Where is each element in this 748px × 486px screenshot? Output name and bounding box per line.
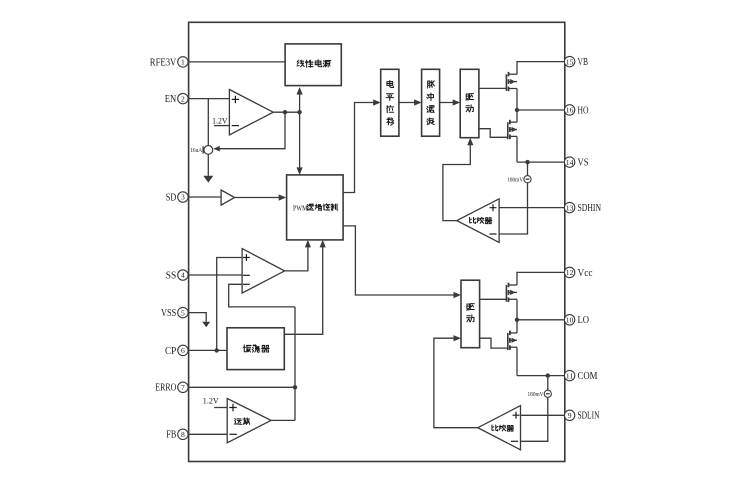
node COM/180mV junction: [546, 373, 550, 377]
PWM comparator U3 (SS): [242, 249, 285, 294]
node VS/180mV junction: [525, 160, 529, 164]
svg-text:2: 2: [181, 94, 185, 103]
wire: 180mV to VS node: [527, 162, 529, 176]
svg-text:VSS: VSS: [161, 308, 176, 319]
svg-text:11: 11: [566, 372, 574, 380]
wire: U3 output up into PWM logic: [285, 245, 308, 271]
pin 1 RFE3V: [150, 57, 188, 69]
node on VDD vertical: [297, 110, 301, 114]
MOSFET Q4 (low side low, LO-COM): [508, 331, 517, 350]
wire: EN branch down to current source: [207, 99, 209, 146]
svg-text:VB: VB: [578, 57, 589, 68]
wire: PWM logic to low-side driver: [343, 226, 456, 295]
high-side comparator U5 (比较器, SDHIN): [457, 199, 499, 243]
wire: SS pin to U3 minus input: [189, 274, 243, 276]
pin 8 FB: [166, 429, 188, 441]
node HO junction: [515, 108, 519, 112]
wire: EN pin to U1 plus input: [189, 98, 230, 100]
MOSFET Q2 (high side low, HO-VS): [508, 120, 517, 139]
linear power supply block (线性电源): [285, 44, 341, 86]
wire: vertical net joining ramp/osc/ERRO/U4 output: [294, 307, 296, 421]
wire: Q4 drain up to LO node: [516, 320, 518, 333]
pin 7 ERRO: [155, 382, 188, 394]
wire: Q1 drain up to VB rail: [517, 62, 565, 75]
svg-text:FB: FB: [166, 430, 176, 441]
wire: U6 output to low-side driver: [434, 338, 478, 428]
svg-text:6: 6: [181, 346, 185, 355]
wire: U3 plus input down to CP node: [217, 258, 242, 351]
wire: buffer to PWM logic: [235, 197, 282, 199]
1.2V reference stub into U1 minus input: [214, 125, 230, 127]
wire: Q2 drain up to HO node: [516, 110, 518, 122]
wire: oscillator output net: [284, 245, 322, 335]
wire: SD pin to buffer: [189, 196, 222, 198]
wire: Q3 drain up to Vcc rail: [517, 272, 565, 285]
wire: Q4 gate jog from low-side driver: [480, 338, 508, 348]
IC boundary box: [189, 22, 565, 461]
svg-text:LO: LO: [578, 315, 590, 326]
wire: ERRO pin line: [189, 386, 295, 388]
pin 5 VSS: [161, 307, 188, 319]
svg-text:10: 10: [566, 317, 574, 325]
oscillator block (振荡器): [227, 328, 284, 370]
svg-text:1.2V: 1.2V: [203, 396, 219, 405]
wire: Q3 gate from low-side driver: [480, 298, 507, 300]
wire: U6 minus input to 180mV source: [521, 397, 548, 441]
svg-text:16uA: 16uA: [190, 148, 203, 154]
low-side driver block (驱动): [461, 280, 480, 348]
svg-text:9: 9: [568, 411, 572, 420]
ground (VSS): [202, 322, 210, 327]
node U1 output branch: [283, 110, 287, 114]
svg-text:4: 4: [181, 271, 185, 280]
svg-text:VS: VS: [578, 158, 589, 169]
wire: FB pin to U4 minus input: [189, 433, 228, 435]
wire: pulse filter to high-side driver: [440, 102, 456, 104]
svg-text:SD: SD: [166, 192, 177, 203]
svg-text:180mV: 180mV: [507, 178, 524, 184]
MOSFET Q1 (high side, VB): [506, 72, 517, 91]
level shift block (电平位移): [381, 69, 399, 136]
wire: RFE3V pin to linear power block: [189, 61, 286, 63]
pulse filter block (脉冲滤波): [422, 69, 440, 136]
pin 13 SDHIN: [564, 202, 601, 214]
op-amp U1 (EN comparator, 1.2V ref): [212, 90, 273, 135]
wire: SDHIN pin to U5 plus input: [499, 207, 565, 209]
pin 11 COM: [564, 370, 597, 382]
pin 16 HO: [564, 105, 588, 117]
svg-text:8: 8: [181, 430, 185, 439]
MOSFET Q3 (low side, Vcc): [506, 283, 517, 302]
svg-text:CP: CP: [165, 346, 177, 357]
node ERRO junction: [293, 385, 297, 389]
wire: Q3 source down to LO node: [516, 299, 518, 320]
pin 3 SD: [166, 192, 188, 204]
wire: Q1 gate from high-side driver: [479, 87, 507, 89]
wire: U4 output to vertical net: [271, 419, 295, 421]
svg-text:1.2V: 1.2V: [212, 116, 228, 125]
svg-text:SDLIN: SDLIN: [578, 411, 600, 422]
current source 16uA: [190, 146, 213, 155]
svg-text:Vcc: Vcc: [578, 268, 594, 279]
wire: LO line to pin 10: [517, 319, 565, 321]
pin 6 CP: [165, 345, 188, 357]
low-side comparator U6 (比较器, SDLIN): [478, 406, 521, 450]
pin 4 SS: [166, 270, 188, 282]
PWM logic control block (PWM逻辑控制): [287, 175, 344, 240]
pin 9 SDLIN: [564, 410, 599, 422]
svg-text:COM: COM: [578, 371, 598, 382]
high-side driver block (驱动): [460, 69, 479, 137]
wire: CP pin to oscillator: [189, 349, 227, 351]
voltage source 180mV (high side): [507, 176, 531, 184]
ground (below current source): [203, 176, 213, 183]
wire: COM line to pin 11: [517, 375, 565, 377]
wire: feedback from U1 output to current source: [215, 112, 286, 149]
pin 14 VS: [564, 157, 588, 169]
wire: HO line to pin 16: [517, 109, 565, 111]
svg-text:RFE3V: RFE3V: [150, 57, 177, 68]
svg-text:ERRO: ERRO: [155, 383, 176, 394]
node LO junction: [515, 318, 519, 322]
svg-text:5: 5: [181, 308, 185, 317]
svg-text:HO: HO: [578, 105, 589, 116]
wire: Q2 source down to VS line: [516, 137, 518, 163]
svg-text:14: 14: [566, 159, 574, 167]
pin 15 VB: [564, 56, 588, 68]
wire: 180mV to COM node: [547, 376, 549, 391]
voltage source 180mV (low side): [528, 390, 552, 398]
svg-text:SS: SS: [166, 270, 177, 281]
wire: U5 output to high-side driver bottom: [443, 142, 470, 220]
wire: Q4 source down to COM line: [516, 347, 518, 375]
wire: U3 ramp input from oscillator net: [229, 284, 295, 307]
wire: PWM logic to level shift: [343, 103, 376, 193]
wire: VSS pin stub to ground: [189, 313, 207, 322]
wire: level shift to pulse filter: [399, 102, 417, 104]
pin 12 Vcc: [564, 267, 593, 279]
wire: Q1 source down to HO node: [516, 89, 518, 111]
wire: VS line to pin 14: [517, 161, 565, 163]
error amplifier U4 (运放, FB): [227, 399, 271, 443]
svg-text:PWM: PWM: [293, 203, 308, 212]
buffer U2 (SD input): [221, 190, 235, 205]
pin 2 EN: [165, 93, 188, 105]
svg-text:SDHIN: SDHIN: [578, 203, 602, 214]
svg-text:15: 15: [566, 58, 574, 66]
svg-text:EN: EN: [165, 94, 177, 105]
pin 10 LO: [564, 315, 589, 327]
wire: SDLIN pin to U6 plus input: [521, 414, 565, 416]
wire: Q2 gate jog from high-side driver: [479, 129, 508, 138]
svg-text:12: 12: [566, 269, 574, 277]
wire: current source to ground: [207, 154, 209, 176]
wire: U5 minus input to 180mV source: [499, 183, 527, 234]
svg-text:3: 3: [181, 193, 185, 202]
wire: U1 output with feedback node: [273, 111, 299, 113]
svg-text:7: 7: [181, 383, 185, 392]
node CP junction: [215, 348, 219, 352]
wire: linear power to PWM logic (double arrow): [299, 92, 301, 171]
svg-text:1: 1: [181, 58, 185, 67]
svg-text:180mV: 180mV: [528, 392, 545, 398]
svg-text:13: 13: [566, 204, 574, 212]
svg-text:16: 16: [566, 107, 574, 115]
